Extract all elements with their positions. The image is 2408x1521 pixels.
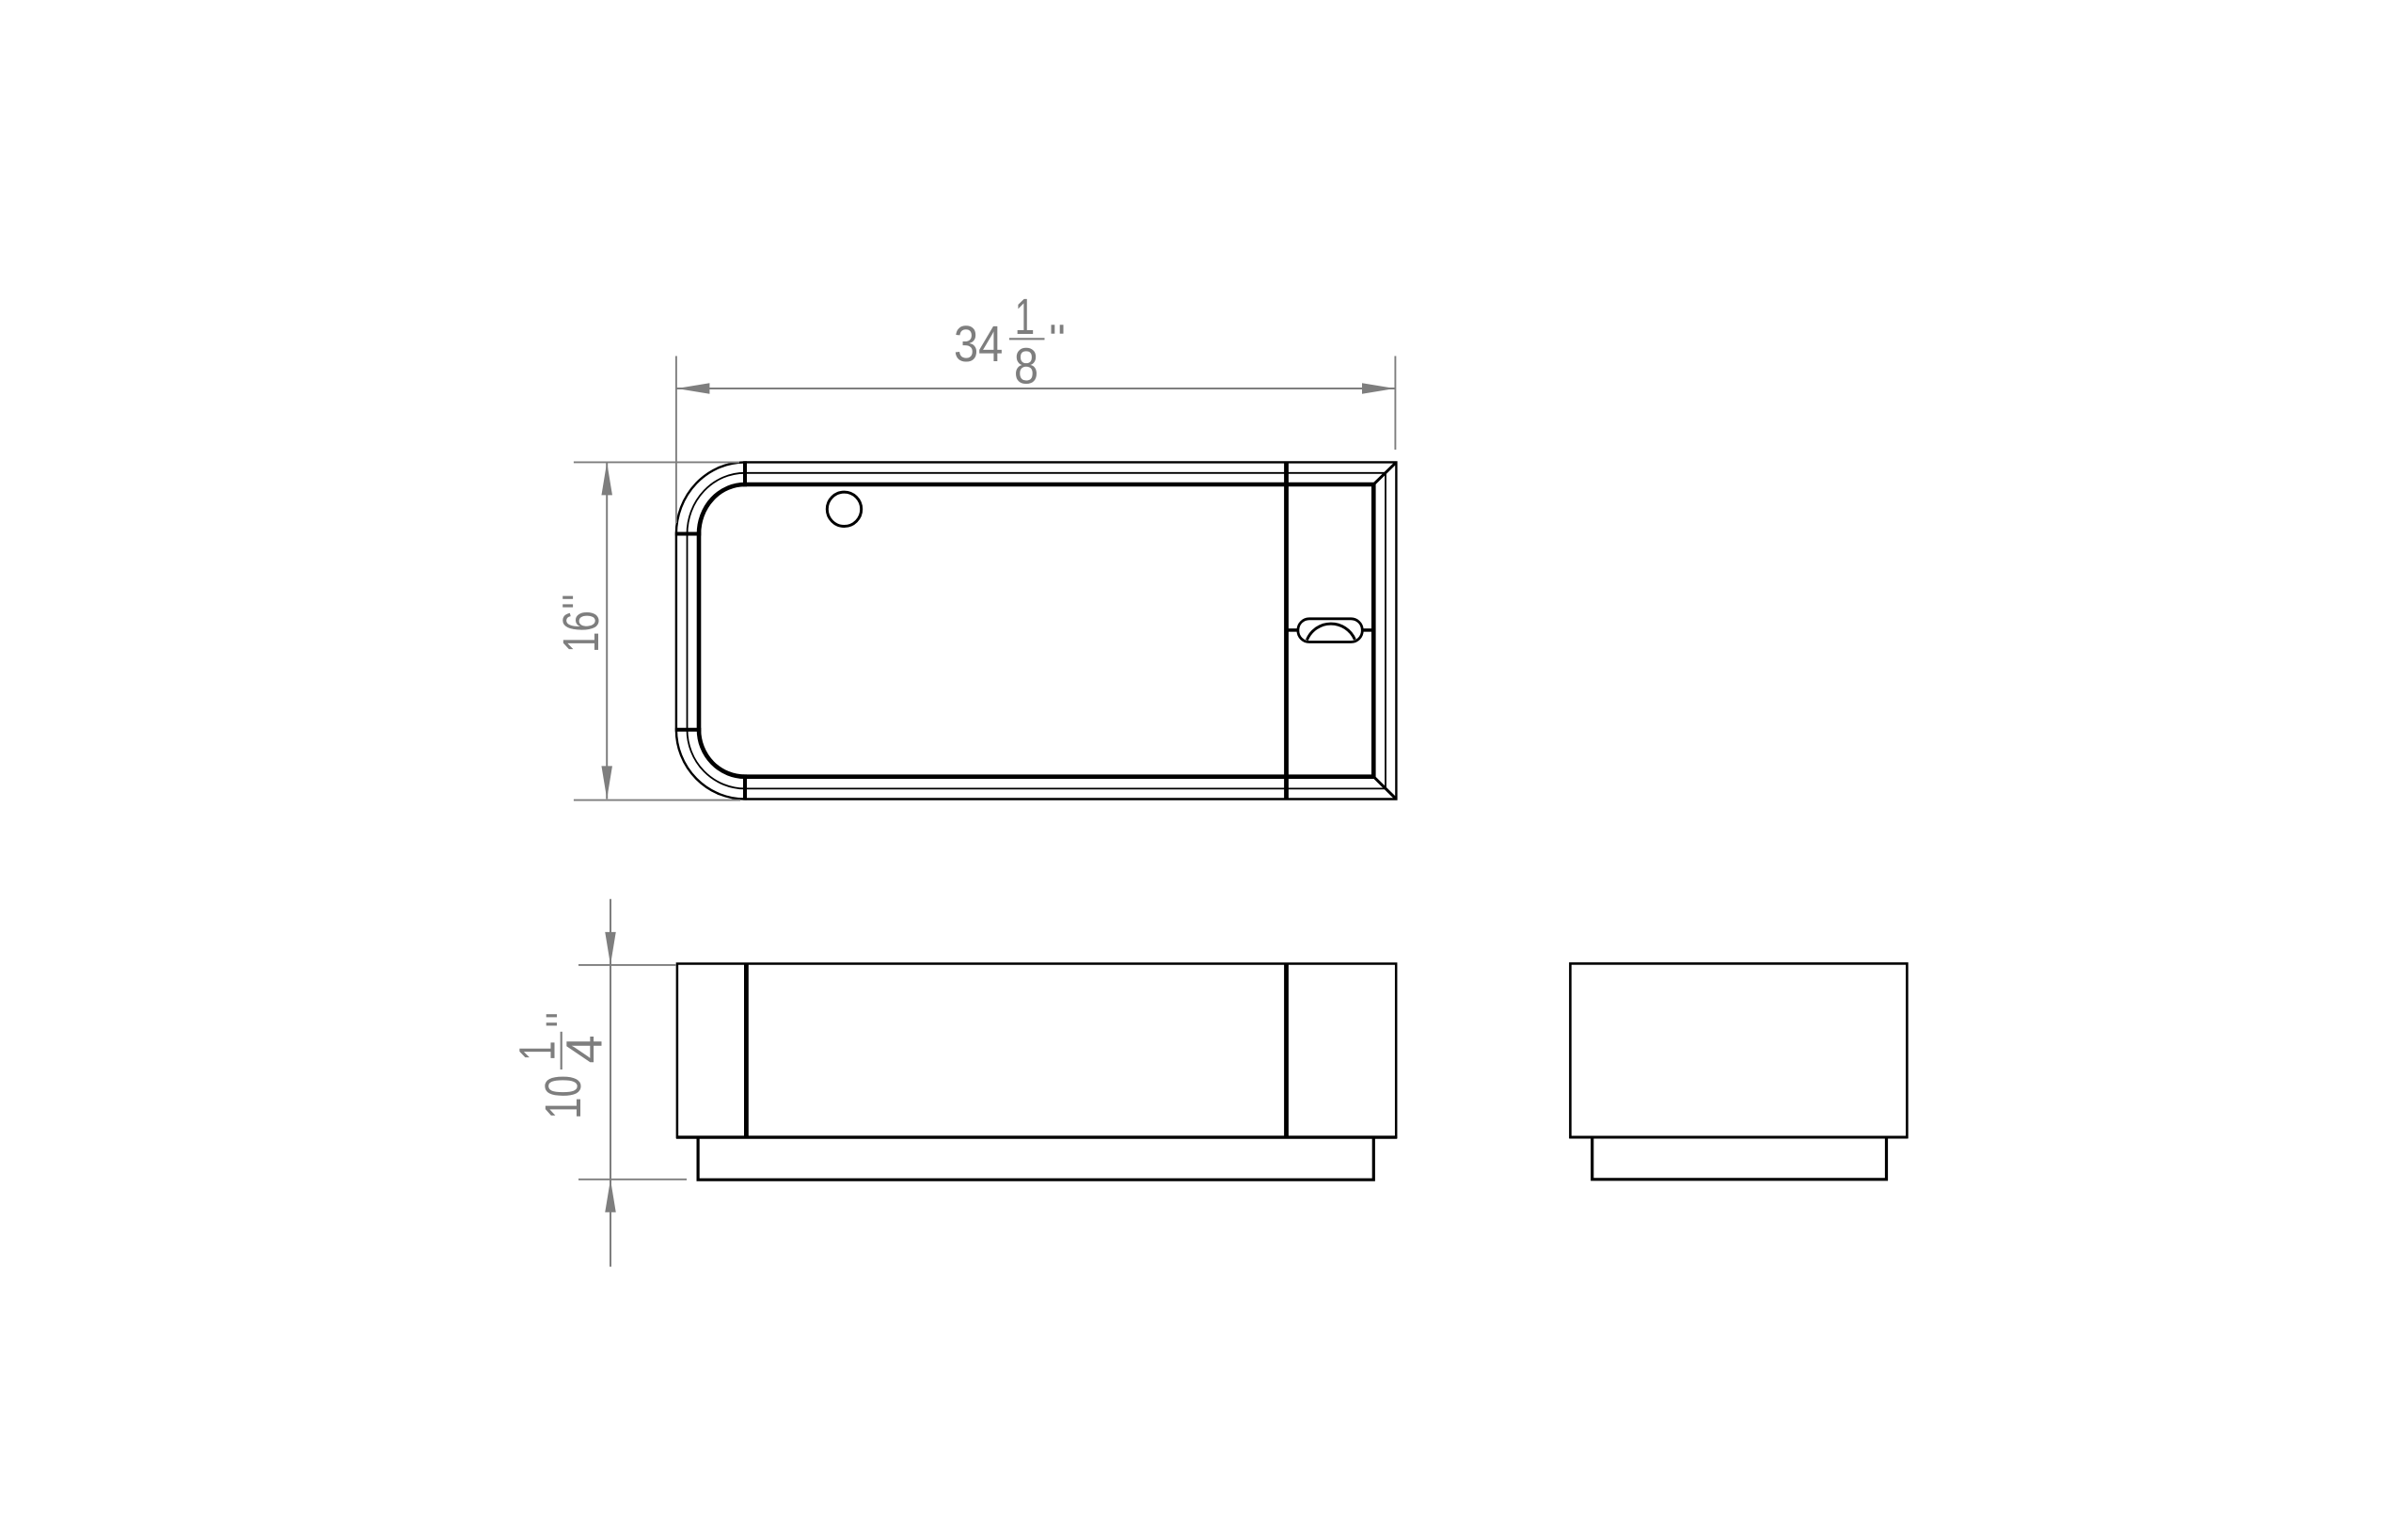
svg-text:8: 8 xyxy=(1014,339,1038,395)
svg-text:1: 1 xyxy=(1015,289,1035,345)
svg-text:34: 34 xyxy=(954,316,1003,372)
svg-text:4: 4 xyxy=(556,1035,612,1063)
svg-text:16: 16 xyxy=(553,610,610,653)
svg-text:10: 10 xyxy=(535,1075,592,1119)
